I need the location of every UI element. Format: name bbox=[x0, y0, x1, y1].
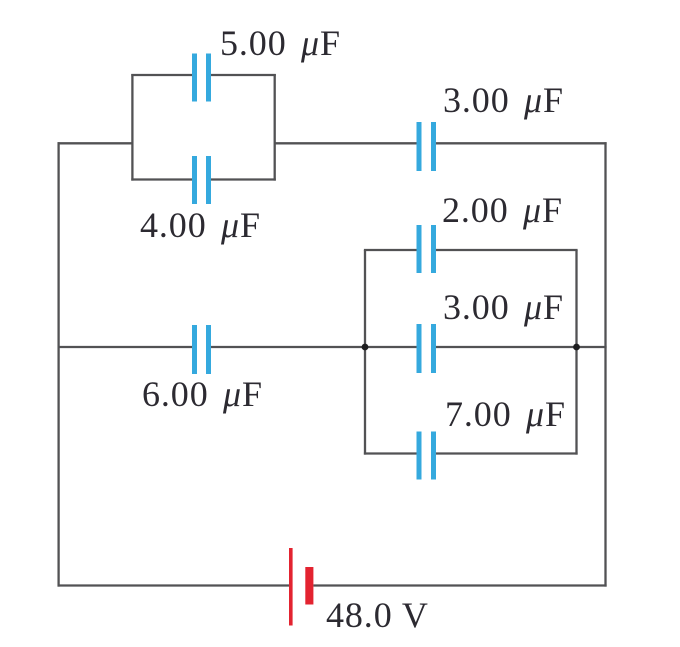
battery 48.0 V negative plate bbox=[305, 567, 313, 605]
wire: outer left edge bbox=[57, 142, 59, 586]
label 4.00 uF bbox=[140, 205, 261, 245]
svg-text:4.00 μF: 4.00 μF bbox=[140, 205, 261, 245]
wire: parallel box top edge left segment bbox=[131, 74, 192, 76]
svg-text:5.00 μF: 5.00 μF bbox=[220, 23, 341, 63]
svg-text:2.00 μF: 2.00 μF bbox=[442, 190, 563, 230]
label 3.00 uF (middle) bbox=[443, 287, 564, 327]
wire: inner box bottom edge right segment bbox=[436, 452, 578, 454]
svg-text:7.00 μF: 7.00 μF bbox=[445, 394, 566, 434]
wire: inner box top edge right segment bbox=[436, 249, 578, 251]
wire: middle wire from middle 3.00 uF capacitor to right edge bbox=[436, 346, 607, 348]
junction node: middle wire and inner box right edge bbox=[573, 344, 580, 351]
label 5.00 uF bbox=[220, 23, 341, 63]
label 48.0 V bbox=[326, 595, 429, 635]
label 2.00 uF bbox=[442, 190, 563, 230]
wire: outer right edge bbox=[604, 142, 606, 586]
wire: inner box left edge bbox=[364, 250, 366, 455]
wire: parallel box right edge bbox=[274, 74, 276, 181]
wire: parallel box left edge bbox=[131, 74, 133, 181]
wire: inner box top edge left segment bbox=[364, 249, 417, 251]
wire: middle wire from left edge to 6.00 uF capacitor bbox=[58, 346, 193, 348]
capacitor 3.00 uF (top) plates bbox=[417, 122, 437, 171]
wire: parallel box top edge right segment bbox=[211, 74, 276, 76]
wire: middle wire from 6.00 uF capacitor to middle 3.00 uF capacitor bbox=[211, 346, 418, 348]
wire: top wire from 3.00 uF capacitor to right edge bbox=[436, 142, 607, 144]
wire: parallel box bottom edge right segment bbox=[211, 178, 276, 180]
label 3.00 uF (top) bbox=[443, 80, 564, 120]
capacitor 2.00 uF plates bbox=[417, 225, 437, 273]
junction node: middle wire and inner box left edge bbox=[362, 344, 369, 351]
svg-text:3.00 μF: 3.00 μF bbox=[443, 287, 564, 327]
capacitor 6.00 uF plates bbox=[192, 325, 211, 374]
svg-text:48.0 V: 48.0 V bbox=[326, 595, 429, 635]
svg-text:6.00 μF: 6.00 μF bbox=[142, 374, 263, 414]
wire: top wire from parallel box to 3.00 uF capacitor bbox=[275, 142, 417, 144]
battery 48.0 V positive plate bbox=[289, 548, 293, 626]
capacitor 4.00 uF plates bbox=[192, 156, 211, 204]
wire: inner box right edge bbox=[575, 250, 577, 455]
capacitor 3.00 uF (middle) plates bbox=[417, 324, 437, 373]
label 6.00 uF bbox=[142, 374, 263, 414]
wire: inner box bottom edge left segment bbox=[364, 452, 417, 454]
wire: bottom edge left of battery bbox=[58, 584, 290, 586]
capacitor 5.00 uF plates bbox=[192, 54, 211, 102]
wire: parallel box bottom edge left segment bbox=[131, 178, 192, 180]
capacitor 7.00 uF plates bbox=[417, 432, 437, 480]
wire: top wire from left edge to parallel box bbox=[58, 142, 133, 144]
svg-text:3.00 μF: 3.00 μF bbox=[443, 80, 564, 120]
wire: bottom edge right of battery bbox=[313, 584, 606, 586]
label 7.00 uF bbox=[445, 394, 566, 434]
